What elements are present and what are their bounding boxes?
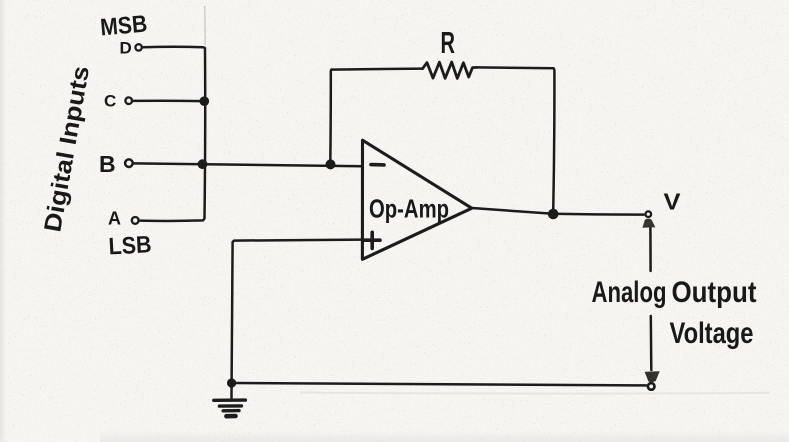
svg-text:Analog: Analog — [592, 276, 667, 309]
svg-text:MSB: MSB — [99, 10, 148, 41]
svg-text:V: V — [664, 189, 682, 215]
svg-text:B: B — [99, 151, 116, 177]
svg-text:R: R — [441, 25, 456, 60]
svg-text:D: D — [120, 39, 132, 58]
svg-text:Op-Amp: Op-Amp — [369, 194, 449, 224]
svg-text:C: C — [104, 92, 116, 111]
svg-text:Output: Output — [672, 276, 757, 309]
svg-text:Voltage: Voltage — [670, 317, 754, 350]
svg-text:LSB: LSB — [108, 231, 152, 260]
svg-text:A: A — [108, 209, 121, 229]
